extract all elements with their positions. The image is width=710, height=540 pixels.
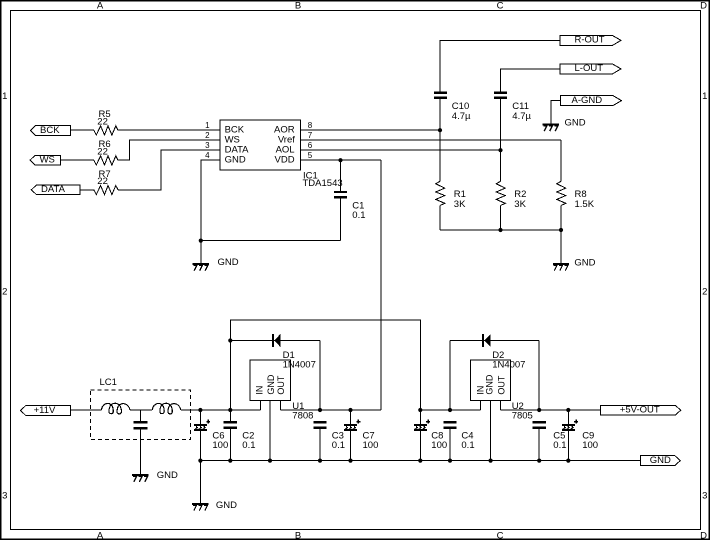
svg-text:GND: GND (485, 374, 495, 395)
svg-text:1: 1 (702, 91, 707, 102)
svg-text:GND: GND (574, 258, 595, 269)
svg-text:L-OUT: L-OUT (575, 63, 604, 74)
svg-text:A: A (97, 1, 104, 12)
svg-text:0.1: 0.1 (461, 440, 474, 451)
svg-text:100: 100 (212, 440, 228, 451)
svg-text:2: 2 (702, 287, 707, 298)
svg-text:GND: GND (216, 500, 237, 511)
svg-text:1N4007: 1N4007 (283, 360, 316, 371)
svg-text:0.1: 0.1 (242, 440, 255, 451)
svg-text:C: C (497, 530, 504, 540)
svg-text:GND: GND (650, 455, 671, 466)
svg-text:4: 4 (205, 151, 210, 160)
svg-text:3K: 3K (454, 199, 466, 210)
svg-text:C: C (497, 1, 504, 12)
svg-text:7805: 7805 (512, 411, 533, 422)
svg-text:+11V: +11V (34, 405, 56, 416)
svg-text:1: 1 (205, 121, 210, 130)
svg-text:+5V-OUT: +5V-OUT (620, 404, 660, 415)
svg-text:R-OUT: R-OUT (575, 35, 605, 46)
svg-text:22: 22 (97, 176, 108, 187)
svg-text:D: D (700, 530, 707, 540)
svg-text:1.5K: 1.5K (575, 199, 595, 210)
svg-text:0.1: 0.1 (332, 440, 345, 451)
svg-text:0.1: 0.1 (553, 440, 566, 451)
svg-text:GND: GND (266, 374, 276, 395)
svg-text:4.7µ: 4.7µ (512, 111, 531, 122)
svg-text:5: 5 (308, 151, 313, 160)
svg-text:OUT: OUT (276, 375, 286, 395)
svg-text:6: 6 (308, 141, 313, 150)
svg-text:3: 3 (702, 491, 707, 502)
svg-text:IN: IN (255, 386, 265, 395)
svg-text:3K: 3K (514, 199, 526, 210)
svg-text:8: 8 (308, 121, 313, 130)
svg-text:A-GND: A-GND (572, 95, 603, 106)
svg-text:GND: GND (218, 257, 239, 268)
svg-text:1: 1 (2, 91, 7, 102)
svg-text:B: B (295, 530, 301, 540)
svg-text:22: 22 (97, 116, 108, 127)
svg-text:DATA: DATA (41, 184, 66, 195)
svg-text:B: B (295, 1, 301, 12)
svg-text:100: 100 (431, 440, 447, 451)
svg-text:3: 3 (2, 491, 7, 502)
svg-text:GND: GND (225, 155, 246, 166)
svg-text:2: 2 (2, 287, 7, 298)
svg-text:A: A (97, 530, 104, 540)
svg-text:3: 3 (205, 141, 210, 150)
svg-text:D: D (700, 1, 707, 12)
svg-text:100: 100 (582, 440, 598, 451)
svg-text:GND: GND (565, 117, 586, 128)
svg-text:BCK: BCK (40, 125, 60, 136)
svg-text:OUT: OUT (496, 375, 506, 395)
svg-text:TDA1543: TDA1543 (303, 178, 343, 189)
svg-text:7808: 7808 (292, 411, 313, 422)
svg-text:100: 100 (363, 440, 379, 451)
svg-text:1N4007: 1N4007 (492, 360, 525, 371)
svg-text:7: 7 (308, 131, 313, 140)
svg-text:0.1: 0.1 (352, 210, 365, 221)
svg-text:2: 2 (205, 131, 210, 140)
svg-text:LC1: LC1 (100, 377, 117, 388)
svg-text:VDD: VDD (275, 155, 295, 166)
svg-text:4.7µ: 4.7µ (452, 111, 471, 122)
svg-text:WS: WS (40, 155, 55, 166)
svg-text:GND: GND (157, 470, 178, 481)
svg-text:22: 22 (97, 146, 108, 157)
